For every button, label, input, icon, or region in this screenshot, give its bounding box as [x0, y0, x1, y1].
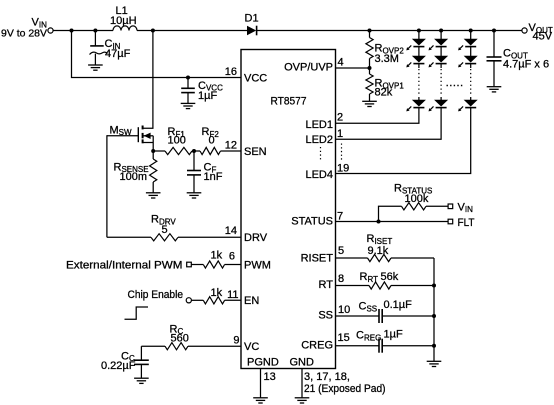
svg-text:21 (Exposed Pad): 21 (Exposed Pad) — [304, 383, 386, 395]
svg-text:CREG: CREG — [301, 340, 333, 352]
ground CVCC — [181, 102, 196, 104]
wire GND exposed pad — [301, 369, 303, 398]
node LED string2 tap — [439, 29, 443, 33]
node CIN tap — [93, 29, 97, 33]
node LED string3 tap — [469, 29, 473, 33]
capacitor CIN — [94, 31, 96, 46]
enable step waveform — [125, 307, 149, 319]
svg-text:56k: 56k — [381, 271, 399, 283]
node RT join — [432, 284, 436, 288]
svg-text:10: 10 — [338, 304, 350, 316]
svg-text:RISET: RISET — [301, 252, 334, 264]
svg-text:1nF: 1nF — [204, 171, 223, 183]
ground RSENSE — [146, 192, 161, 194]
ground PGND — [253, 397, 268, 399]
wire source to RF1 — [153, 150, 165, 152]
svg-text:VCC: VCC — [244, 72, 267, 84]
node VIN/VCC tap — [70, 29, 74, 33]
op-amp U1 RT8577 IC body — [241, 50, 336, 369]
svg-text:14: 14 — [225, 225, 237, 237]
node OVP divider — [368, 66, 372, 70]
resistor RSTATUS — [379, 206, 402, 221]
svg-text:47µF: 47µF — [105, 48, 131, 60]
dotted LED ellipsis outside IC — [341, 144, 343, 161]
transistor MSW — [138, 126, 153, 152]
svg-text:LED4: LED4 — [305, 169, 333, 181]
capacitor CC — [140, 346, 142, 360]
svg-text:1µF: 1µF — [384, 329, 403, 341]
capacitor COUT — [493, 31, 495, 58]
svg-text:FLT: FLT — [458, 217, 475, 229]
node CF tap — [192, 150, 200, 152]
svg-text:External/Internal PWM: External/Internal PWM — [66, 260, 183, 272]
wire VIN to L1 — [53, 30, 113, 32]
svg-text:0.22µF: 0.22µF — [101, 360, 136, 372]
svg-text:D1: D1 — [245, 13, 259, 25]
svg-text:GND: GND — [290, 356, 315, 368]
terminal VOUT — [522, 28, 527, 33]
ground CC — [134, 377, 149, 379]
svg-text:PGND: PGND — [247, 356, 279, 368]
svg-text:SEN: SEN — [244, 146, 267, 158]
terminal FLT — [448, 219, 453, 224]
svg-text:VC: VC — [244, 341, 259, 353]
ground ROVP1 — [362, 100, 377, 102]
node LED string1 tap — [417, 29, 421, 33]
terminal EN — [186, 298, 191, 303]
svg-text:45V: 45V — [533, 31, 553, 43]
resistor RF1 — [165, 147, 192, 154]
resistor RDRV — [107, 236, 151, 238]
svg-text:4: 4 — [338, 56, 344, 68]
svg-text:RT: RT — [319, 279, 334, 291]
wire STATUS pin 7 — [336, 221, 449, 223]
svg-text:11: 11 — [227, 289, 238, 301]
node COUT tap — [492, 29, 496, 33]
svg-text:9: 9 — [233, 335, 239, 347]
terminal VIN status — [448, 204, 453, 209]
resistor ROVP2 — [369, 31, 371, 38]
ground COUT — [487, 86, 502, 88]
resistor 1k EN — [191, 299, 203, 301]
ground GND — [295, 397, 310, 399]
capacitor CREG — [336, 345, 380, 347]
svg-text:8: 8 — [338, 273, 344, 285]
wire drain from rail — [143, 31, 153, 129]
resistor RSENSE — [152, 151, 154, 159]
resistor 1k PWM — [191, 264, 203, 266]
capacitor CVCC — [187, 78, 189, 89]
node MOSFET source — [151, 149, 155, 153]
svg-text:0: 0 — [209, 135, 215, 147]
LED string 2 — [336, 31, 447, 140]
wire L1 to D1 — [137, 30, 247, 32]
svg-text:LED1: LED1 — [305, 119, 333, 131]
svg-text:9V to 28V: 9V to 28V — [1, 28, 47, 40]
wire gate down to DRV — [106, 135, 108, 237]
wire PGND pin 13 — [260, 369, 262, 398]
resistor RISET — [336, 257, 368, 259]
LED string 3 — [336, 31, 477, 174]
node CVCC tap — [186, 76, 190, 80]
svg-text:100m: 100m — [120, 171, 148, 183]
resistor ROVP1 — [369, 68, 371, 74]
svg-text:12: 12 — [225, 140, 237, 152]
svg-text:OVP/UVP: OVP/UVP — [284, 61, 333, 73]
ground CF — [187, 192, 202, 194]
svg-text:4.7µF x 6: 4.7µF x 6 — [503, 59, 549, 71]
svg-text:PWM: PWM — [244, 259, 271, 271]
resistor RC — [141, 345, 165, 347]
svg-text:1k: 1k — [211, 287, 223, 299]
svg-text:16: 16 — [225, 66, 237, 78]
svg-text:DRV: DRV — [244, 232, 268, 244]
wire RF2 to SEN — [221, 150, 242, 152]
svg-text:EN: EN — [244, 295, 259, 307]
capacitor CF — [193, 151, 195, 171]
svg-text:100k: 100k — [405, 193, 429, 205]
capacitor CSS — [336, 315, 380, 317]
resistor RF2 — [200, 147, 221, 154]
svg-text:6: 6 — [229, 251, 235, 263]
node ROVP2 tap — [368, 29, 372, 33]
node CREG join — [432, 344, 436, 348]
svg-text:LED2: LED2 — [305, 134, 333, 146]
dotted string ellipsis horizontal — [447, 85, 464, 87]
svg-text:82k: 82k — [375, 87, 393, 99]
svg-text:1: 1 — [337, 128, 343, 140]
svg-text:100: 100 — [168, 135, 186, 147]
svg-text:5: 5 — [338, 245, 344, 257]
diode D1 — [247, 26, 256, 36]
terminal PWM — [187, 262, 192, 267]
svg-text:3, 17, 18,: 3, 17, 18, — [304, 371, 350, 383]
ground right vertical — [427, 360, 442, 362]
wire gate — [107, 135, 138, 137]
svg-text:3.3M: 3.3M — [375, 53, 399, 65]
svg-text:STATUS: STATUS — [291, 216, 333, 228]
svg-text:19: 19 — [337, 162, 349, 174]
dotted LED ellipsis inside IC — [320, 147, 322, 162]
inductor L1 — [113, 26, 137, 31]
LED string 1 — [336, 31, 425, 124]
node STATUS tap — [377, 220, 381, 224]
svg-text:SS: SS — [318, 310, 333, 322]
wire D1 to VOUT rail — [257, 30, 522, 32]
svg-text:1µF: 1µF — [198, 90, 217, 102]
svg-text:RT8577: RT8577 — [271, 96, 307, 108]
svg-text:5: 5 — [162, 224, 168, 236]
svg-text:Chip Enable: Chip Enable — [128, 289, 184, 301]
svg-text:2: 2 — [337, 112, 343, 124]
svg-text:10µH: 10µH — [110, 15, 137, 27]
terminal VIN input — [48, 28, 53, 33]
svg-text:15: 15 — [338, 332, 350, 344]
svg-text:560: 560 — [171, 332, 189, 344]
node SS join — [432, 314, 436, 318]
wire OVP/UVP pin 4 — [336, 67, 370, 69]
ground CIN — [88, 64, 103, 66]
resistor RRT — [336, 285, 370, 287]
wire VIN down to VCC rail — [72, 31, 242, 78]
svg-text:13: 13 — [264, 371, 276, 383]
wire right common vertical — [433, 258, 435, 361]
svg-text:0.1µF: 0.1µF — [384, 299, 413, 311]
svg-text:9.1k: 9.1k — [368, 245, 389, 257]
node MOSFET drain tap — [151, 29, 155, 33]
svg-text:1k: 1k — [211, 250, 223, 262]
